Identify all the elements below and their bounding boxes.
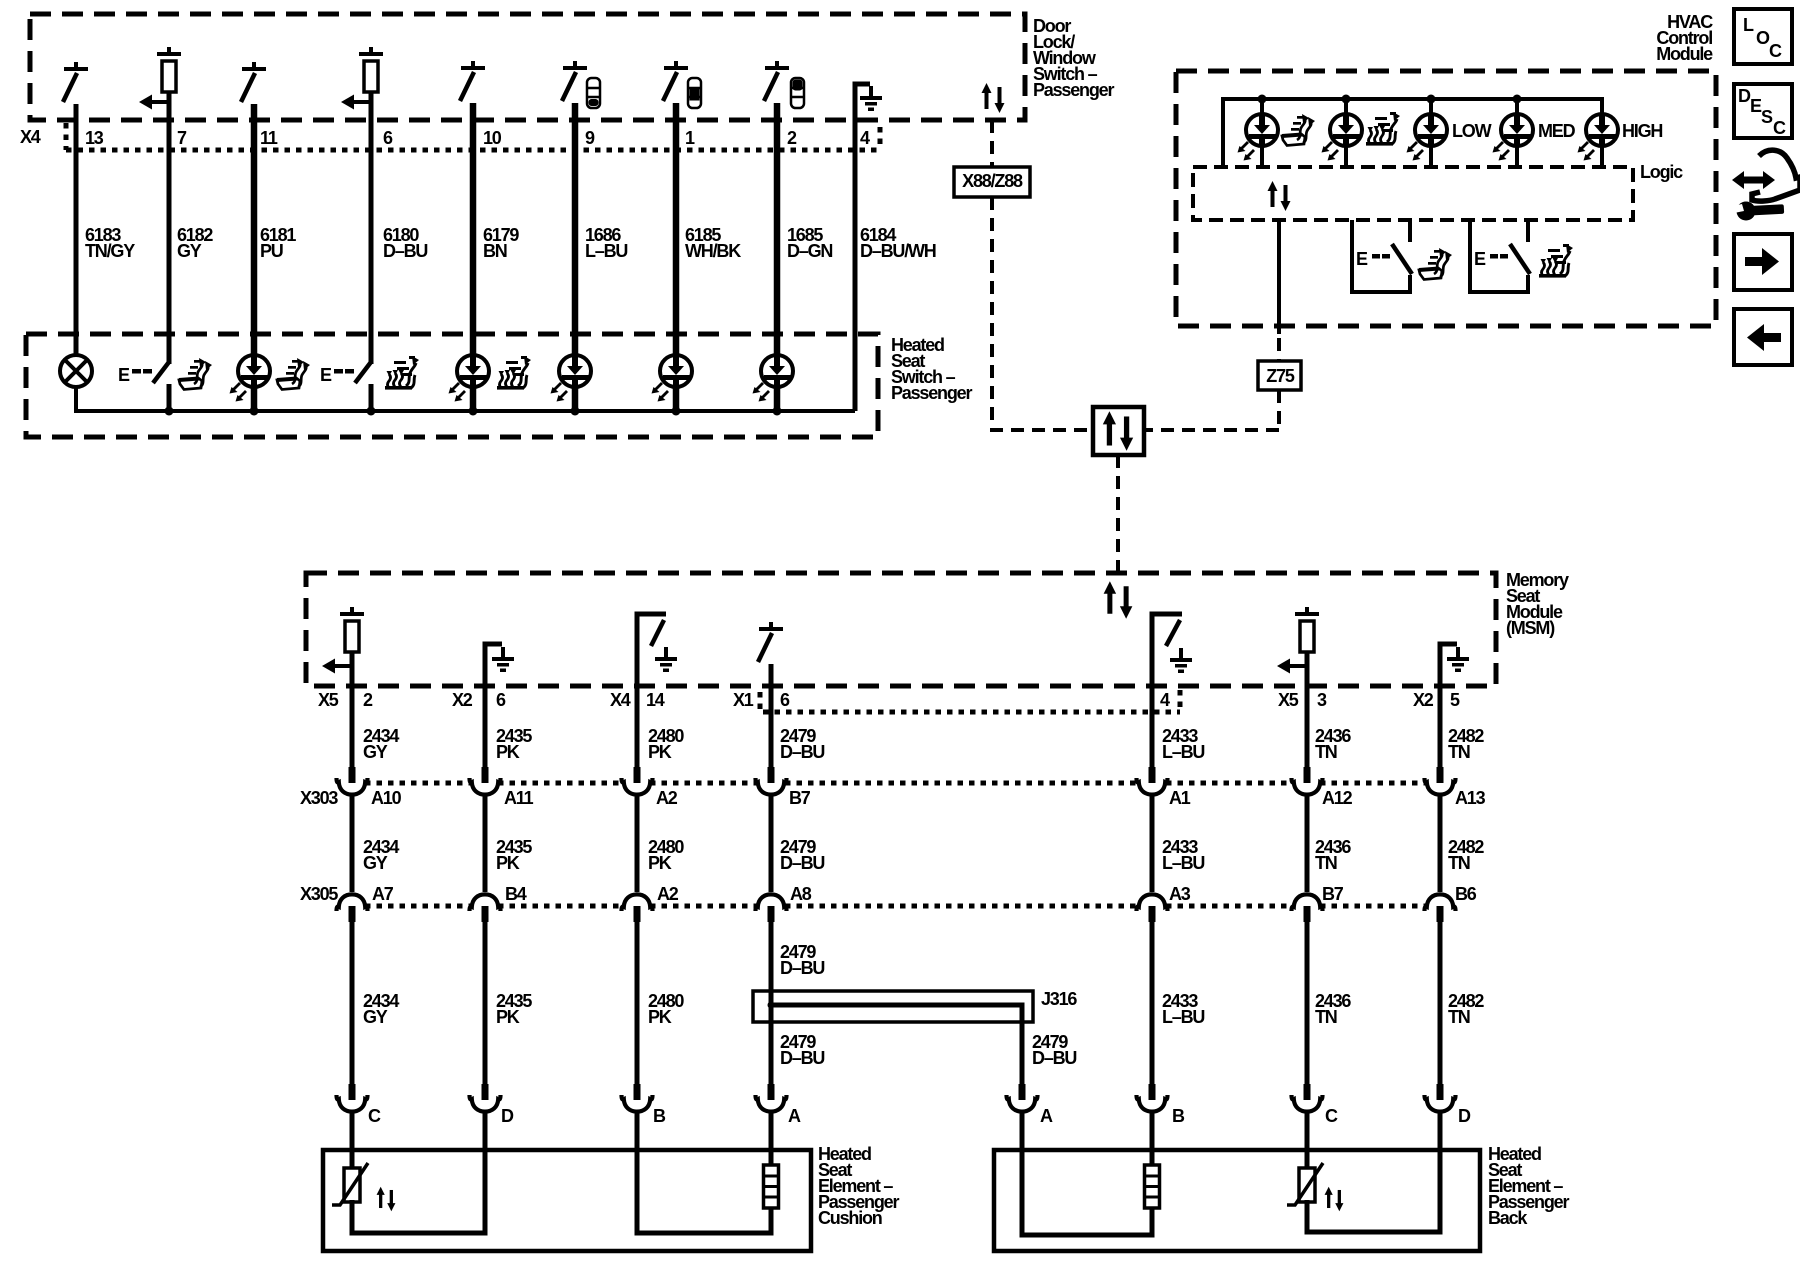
wire 2436 TN lower — [1305, 921, 1310, 1084]
supply arrow X5-2 — [322, 659, 352, 674]
thermistor arrows back — [1325, 1187, 1344, 1212]
terminal X303 A2 — [622, 767, 653, 795]
LED indicator cushion — [1246, 114, 1278, 146]
svg-text:L–BU: L–BU — [1162, 1007, 1204, 1027]
svg-text:A: A — [1040, 1106, 1053, 1126]
svg-text:D–BU: D–BU — [780, 742, 824, 762]
thermistor loop to D back — [1307, 1113, 1440, 1232]
connector row X305 — [365, 904, 1427, 909]
adjust/tools icon — [1732, 150, 1800, 220]
svg-text:D: D — [1458, 1106, 1471, 1126]
switch S1 — [663, 61, 688, 101]
wire B leg — [637, 1113, 771, 1233]
wire pin4 ground leg — [1152, 614, 1182, 767]
terminal X303 A11 — [470, 767, 501, 795]
LED indicator MED — [1501, 114, 1533, 146]
terminal pin B back — [1137, 1084, 1168, 1112]
HVAC Control Module box — [1176, 71, 1716, 326]
logic output wire — [1277, 220, 1281, 334]
wire A to element — [769, 1113, 774, 1165]
wire 2479 D-BU mid — [769, 796, 774, 892]
svg-text:A10: A10 — [371, 788, 402, 808]
svg-text:S: S — [1761, 107, 1773, 127]
DESC reference box — [1734, 84, 1792, 138]
wire C to thermistor — [350, 1113, 355, 1168]
svg-text:B6: B6 — [1455, 884, 1477, 904]
LED indicator HIGH — [1586, 114, 1618, 146]
svg-text:Module: Module — [1656, 44, 1713, 64]
LED arrows — [652, 383, 663, 394]
wire 2480 PK mid — [635, 796, 640, 892]
svg-text:11: 11 — [260, 128, 278, 148]
heating element back — [1145, 1165, 1160, 1208]
svg-text:J316: J316 — [1041, 989, 1077, 1009]
wire pin 11 — [251, 104, 258, 411]
svg-text:X4: X4 — [610, 690, 631, 710]
switch contact Q2 (seat back) — [1470, 220, 1530, 292]
thermistor cushion — [332, 1163, 368, 1205]
wire stub below switch — [167, 384, 172, 411]
Memory Seat Module box — [306, 573, 1496, 686]
wire pin 10 — [470, 103, 477, 411]
svg-text:4: 4 — [1160, 690, 1170, 710]
svg-text:C: C — [1769, 41, 1782, 61]
switch S13 — [63, 62, 88, 102]
svg-text:C: C — [1325, 1106, 1338, 1126]
ground G4 — [860, 86, 882, 111]
svg-text:GY: GY — [363, 1007, 388, 1027]
svg-text:C: C — [368, 1106, 381, 1126]
switch X1-6 — [758, 622, 783, 662]
MSM updown arrows — [1104, 581, 1133, 619]
LOC reference box — [1734, 9, 1792, 64]
wire 2482 TN mid — [1438, 796, 1443, 892]
LED indicator HIGH — [761, 355, 793, 387]
LED arrows — [753, 383, 764, 394]
svg-text:A12: A12 — [1322, 788, 1353, 808]
svg-text:(MSM): (MSM) — [1506, 618, 1555, 638]
svg-text:BN: BN — [483, 241, 507, 261]
lock icon pin 2 — [791, 78, 804, 108]
wire pin 6 — [369, 92, 374, 364]
wire 2482 TN lower — [1438, 921, 1443, 1084]
switch S2 — [764, 61, 789, 101]
X88/Z88 connector path — [992, 120, 1093, 430]
svg-text:B: B — [653, 1106, 666, 1126]
wire pin 9 — [572, 103, 579, 411]
supply arrow pin 7 — [139, 95, 169, 110]
terminal X303 A1 — [1137, 767, 1168, 795]
svg-text:A: A — [788, 1106, 801, 1126]
wire X5-2 — [350, 650, 355, 767]
svg-text:TN: TN — [1315, 1007, 1337, 1027]
resistor X5-3 — [1295, 607, 1319, 652]
switch S11 — [241, 62, 266, 102]
terminal X303 B7 — [756, 767, 787, 795]
thermistor back — [1287, 1163, 1323, 1205]
svg-text:X5: X5 — [1278, 690, 1299, 710]
terminal pin C back — [1292, 1084, 1323, 1112]
svg-text:A1: A1 — [1169, 788, 1191, 808]
svg-text:A11: A11 — [504, 788, 534, 808]
svg-text:TN: TN — [1315, 853, 1337, 873]
wire 2433 L-BU lower — [1150, 921, 1155, 1084]
svg-text:B7: B7 — [789, 788, 811, 808]
svg-text:B4: B4 — [505, 884, 527, 904]
switch blade pin 4 — [1166, 620, 1180, 646]
terminal X303 A12 — [1292, 767, 1323, 795]
heated seat back icon — [385, 356, 419, 390]
heated seat back icon — [1366, 112, 1400, 146]
wire C to thermistor back — [1305, 1113, 1310, 1168]
terminal X305 B7 — [1292, 894, 1323, 922]
wire 2435 PK mid — [483, 796, 488, 892]
svg-text:D–GN: D–GN — [787, 241, 832, 261]
lock icon pin 9 — [587, 78, 600, 108]
wire X2-5 ground leg — [1440, 644, 1457, 767]
ground bus wire — [76, 387, 855, 411]
svg-text:GY: GY — [363, 742, 388, 762]
Z75 splice path — [1144, 338, 1279, 430]
svg-text:HIGH: HIGH — [1622, 121, 1662, 141]
wire 2436 TN mid — [1305, 796, 1310, 892]
switch contact Q1 (cushion) — [1352, 220, 1412, 292]
wire pin 7 — [167, 92, 172, 364]
svg-text:6: 6 — [780, 690, 790, 710]
heated cushion icon — [179, 358, 212, 390]
svg-text:PK: PK — [496, 853, 520, 873]
terminal X303 A13 — [1425, 767, 1456, 795]
wire 2479 D-BU lower — [769, 921, 774, 1084]
svg-text:TN: TN — [1448, 853, 1470, 873]
thermistor arrows — [377, 1187, 396, 1212]
svg-text:PU: PU — [260, 241, 283, 261]
wire X2-6 ground leg — [485, 644, 502, 767]
terminal pin C cushion — [337, 1084, 368, 1112]
svg-text:GY: GY — [363, 853, 388, 873]
resistor (illumination) pin 6 — [359, 47, 383, 92]
svg-text:TN: TN — [1315, 742, 1337, 762]
heating element cushion — [764, 1165, 779, 1208]
svg-text:D: D — [501, 1106, 514, 1126]
svg-text:6: 6 — [496, 690, 506, 710]
svg-text:L–BU: L–BU — [1162, 853, 1204, 873]
svg-text:Logic: Logic — [1640, 162, 1683, 182]
svg-text:X303: X303 — [300, 788, 338, 808]
svg-text:Back: Back — [1488, 1208, 1528, 1228]
harness pass-through symbol — [1093, 407, 1144, 455]
svg-text:WH/BK: WH/BK — [685, 241, 741, 261]
svg-text:LOW: LOW — [1452, 121, 1492, 141]
bus junctions — [165, 407, 174, 416]
svg-text:X1: X1 — [733, 690, 754, 710]
svg-text:Passenger: Passenger — [1033, 80, 1114, 100]
svg-text:TN: TN — [1448, 1007, 1470, 1027]
switch S9 — [562, 61, 587, 101]
logic updown arrows — [1268, 181, 1291, 211]
terminal X303 A10 — [337, 767, 368, 795]
wire 2480 PK lower — [635, 921, 640, 1084]
ground X4-14 — [655, 647, 677, 672]
wire A leg back — [1022, 1113, 1152, 1235]
dashed drop to MSM — [1116, 455, 1120, 573]
terminal X305 B4 — [470, 894, 501, 922]
LED indicator LOW — [1415, 114, 1447, 146]
svg-text:X2: X2 — [1413, 690, 1434, 710]
svg-text:1: 1 — [685, 128, 695, 148]
LED indicator MED — [660, 355, 692, 387]
ground X2-5 — [1447, 647, 1469, 672]
terminal pin D back — [1425, 1084, 1456, 1112]
resistor (illumination) pin 7 — [157, 47, 181, 92]
svg-text:GY: GY — [177, 241, 202, 261]
connector X1 dotted outline — [760, 690, 1180, 712]
LED arrows — [449, 383, 460, 394]
terminal pin B cushion — [622, 1084, 653, 1112]
svg-text:O: O — [1756, 28, 1770, 48]
LED arrows — [551, 383, 562, 394]
LED indicator LOW — [559, 355, 591, 387]
svg-text:10: 10 — [483, 128, 502, 148]
heated cushion icon — [277, 358, 310, 390]
wire pin 2 — [774, 103, 781, 411]
terminal X305 B6 — [1425, 894, 1456, 922]
svg-text:A2: A2 — [657, 884, 679, 904]
svg-text:X5: X5 — [318, 690, 339, 710]
svg-text:PK: PK — [648, 1007, 672, 1027]
switch contact E (cushion) — [118, 362, 169, 385]
svg-text:D–BU: D–BU — [383, 241, 427, 261]
svg-text:3: 3 — [1317, 690, 1327, 710]
Door Lock/Window Switch - Passenger module box — [30, 14, 1025, 120]
bus junctions — [1258, 95, 1267, 104]
thermistor loop to D — [352, 1113, 485, 1233]
wire 2434 GY mid — [350, 796, 355, 892]
svg-text:A13: A13 — [1455, 788, 1486, 808]
svg-text:PK: PK — [496, 1007, 520, 1027]
wire stub below switch — [369, 384, 374, 411]
svg-text:2: 2 — [363, 690, 373, 710]
svg-text:4: 4 — [860, 128, 870, 148]
svg-text:Z75: Z75 — [1266, 366, 1295, 386]
svg-text:TN: TN — [1448, 742, 1470, 762]
X88/Z88 label — [954, 167, 1030, 197]
svg-text:B: B — [1172, 1106, 1185, 1126]
terminal X305 A8 — [756, 894, 787, 922]
forward reference arrow box — [1734, 234, 1792, 290]
svg-text:13: 13 — [85, 128, 104, 148]
svg-text:6: 6 — [383, 128, 393, 148]
splice J316 — [753, 991, 1033, 1084]
svg-text:7: 7 — [177, 128, 187, 148]
heated cushion icon — [1282, 114, 1315, 146]
heated seat back icon — [497, 356, 531, 390]
wire B to element back — [1150, 1113, 1155, 1165]
svg-text:A7: A7 — [372, 884, 394, 904]
terminal X305 A7 — [337, 894, 368, 922]
svg-text:PK: PK — [496, 742, 520, 762]
Heated Seat Switch - Passenger module box — [26, 334, 878, 437]
svg-text:14: 14 — [646, 690, 665, 710]
Z75 label — [1258, 361, 1301, 390]
svg-text:D–BU: D–BU — [780, 958, 824, 978]
wire pin 1 — [673, 103, 680, 411]
svg-text:2: 2 — [787, 128, 797, 148]
wire pin 4 (ground leg) — [855, 84, 870, 411]
terminal pin D cushion — [470, 1084, 501, 1112]
wire X4-14 ground leg — [637, 614, 666, 767]
wire 2434 GY lower — [350, 921, 355, 1084]
svg-text:MED: MED — [1538, 121, 1576, 141]
svg-text:D–BU: D–BU — [780, 853, 824, 873]
ground X2-6 — [492, 647, 514, 672]
terminal pin A back — [1007, 1084, 1038, 1112]
wire 2435 PK lower — [483, 921, 488, 1084]
terminal pin A cushion — [756, 1084, 787, 1112]
supply arrow X5-3 — [1277, 659, 1307, 674]
terminal X305 A2 — [622, 894, 653, 922]
switch S10 — [460, 61, 485, 101]
svg-text:B7: B7 — [1322, 884, 1344, 904]
svg-text:L–BU: L–BU — [585, 241, 627, 261]
heated cushion icon — [1419, 248, 1452, 280]
heated seat back icon — [1539, 244, 1573, 278]
inter-module arrows on door lock box — [982, 83, 1005, 113]
switch contact E (seat back) — [320, 362, 371, 385]
svg-text:9: 9 — [585, 128, 595, 148]
connector row X303 — [365, 781, 1427, 786]
svg-text:A3: A3 — [1169, 884, 1191, 904]
svg-text:X2: X2 — [452, 690, 473, 710]
indicator lamp — [60, 355, 92, 387]
svg-text:TN/GY: TN/GY — [85, 241, 135, 261]
terminal X305 A3 — [1137, 894, 1168, 922]
wire 2433 L-BU mid — [1150, 796, 1155, 892]
supply arrow pin 6 — [341, 95, 371, 110]
svg-text:D–BU/WH: D–BU/WH — [860, 241, 936, 261]
svg-text:X88/Z88: X88/Z88 — [962, 171, 1023, 191]
connector X4 dotted row — [66, 123, 880, 150]
wire X5-3 — [1305, 650, 1310, 767]
svg-text:X305: X305 — [300, 884, 338, 904]
Heated Seat Element - Passenger Cushion box — [323, 1150, 811, 1251]
svg-text:Passenger: Passenger — [891, 383, 972, 403]
svg-text:X4: X4 — [20, 127, 41, 147]
svg-text:A2: A2 — [656, 788, 678, 808]
svg-text:C: C — [1773, 118, 1786, 138]
svg-text:A8: A8 — [790, 884, 812, 904]
backward reference arrow box — [1734, 309, 1792, 365]
LED indicator seat back — [1330, 114, 1362, 146]
wire X1-6 — [769, 664, 774, 767]
LED arrows — [230, 383, 241, 394]
resistor X5-2 — [340, 607, 364, 652]
switch blade X4-14 — [651, 620, 664, 646]
svg-text:D–BU: D–BU — [780, 1048, 824, 1068]
wire pin 13 — [74, 104, 79, 356]
ground pin 4 — [1170, 648, 1192, 673]
Logic box — [1193, 167, 1633, 220]
LED indicator (seat back) — [457, 355, 489, 387]
LED column wires — [1262, 99, 1602, 167]
svg-text:PK: PK — [648, 853, 672, 873]
Heated Seat Element - Passenger Back box — [994, 1150, 1480, 1251]
svg-text:PK: PK — [648, 742, 672, 762]
svg-text:L–BU: L–BU — [1162, 742, 1204, 762]
svg-text:5: 5 — [1450, 690, 1460, 710]
LED supply bus — [1223, 99, 1602, 167]
svg-text:L: L — [1743, 15, 1754, 35]
svg-text:D–BU: D–BU — [1032, 1048, 1076, 1068]
lock icon pin 1 — [688, 78, 701, 108]
svg-text:Cushion: Cushion — [818, 1208, 882, 1228]
LED indicator (cushion) — [238, 355, 270, 387]
